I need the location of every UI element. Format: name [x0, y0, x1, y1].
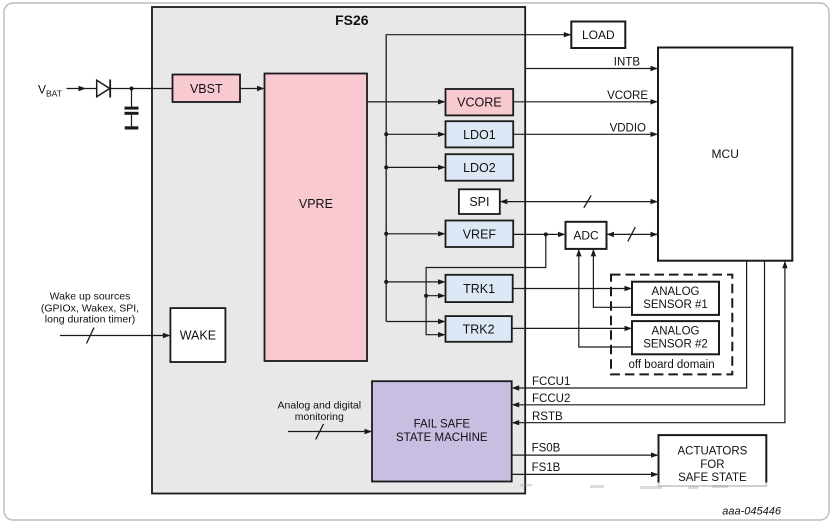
block WAKE — [170, 308, 225, 362]
diode D1 — [97, 80, 111, 98]
wire wake sources to WAKE — [60, 328, 170, 344]
svg-text:off board domain: off board domain — [629, 359, 715, 371]
wire RSTB between FSSM and MCU — [512, 261, 788, 426]
arrow into TRK2 lower input — [438, 332, 446, 337]
svg-text:WAKE: WAKE — [180, 328, 216, 342]
artifact ghost smudges — [520, 484, 728, 489]
artifact white fade over actuators bottom — [560, 483, 775, 492]
svg-text:MCU: MCU — [712, 147, 739, 161]
svg-text:ANALOG: ANALOG — [652, 286, 700, 298]
wire ANALOG SENSOR #2 to ADC — [576, 249, 632, 347]
regulator VBST — [173, 75, 241, 103]
svg-text:SAFE STATE: SAFE STATE — [678, 472, 747, 484]
svg-text:FS1B: FS1B — [532, 462, 561, 474]
wire VPRE output to VCORE — [367, 99, 446, 104]
block ADC — [566, 222, 607, 249]
wire ADC to MCU bidirectional bus — [607, 227, 659, 242]
block ANALOG SENSOR #2 — [632, 321, 719, 354]
wire bus to LDO2 — [386, 165, 445, 170]
wire VREF feedback to TRK lower inputs — [426, 234, 546, 334]
block ACTUATORS FOR SAFE STATE — [659, 435, 767, 486]
FS26 chip outline — [152, 7, 525, 494]
svg-text:FS26: FS26 — [335, 12, 369, 28]
wire SPI to MCU bidirectional bus — [500, 195, 658, 207]
svg-text:FAIL SAFE: FAIL SAFE — [414, 419, 471, 431]
svg-text:TRK2: TRK2 — [463, 323, 495, 337]
svg-text:STATE MACHINE: STATE MACHINE — [396, 432, 488, 444]
svg-text:ANALOG: ANALOG — [652, 325, 700, 337]
capacitor C1 — [125, 89, 139, 127]
svg-text:FOR: FOR — [700, 459, 724, 471]
wire to TRK1 lower input — [426, 293, 445, 298]
svg-text:(GPIOx, Wakex, SPI,: (GPIOx, Wakex, SPI, — [41, 302, 139, 314]
svg-text:VBST: VBST — [190, 82, 223, 96]
svg-text:FS0B: FS0B — [532, 442, 561, 454]
svg-text:SENSOR #1: SENSOR #1 — [643, 299, 708, 311]
wire bus to LDO1 — [386, 132, 445, 137]
svg-text:V: V — [38, 83, 46, 97]
wire FCCU1 from MCU to FSSM — [512, 261, 747, 391]
wire bus bottom to TRK2 upper input — [386, 319, 445, 324]
block SPI — [459, 189, 500, 214]
svg-text:ADC: ADC — [573, 229, 599, 243]
svg-text:VREF: VREF — [463, 227, 497, 241]
wire FS1B to actuators — [512, 462, 659, 477]
regulator VPRE — [265, 74, 368, 362]
wire INTB — [525, 57, 658, 72]
svg-text:LDO1: LDO1 — [463, 128, 496, 142]
svg-text:RSTB: RSTB — [532, 411, 563, 423]
node bus-TRK1 junction — [384, 280, 388, 284]
analog and digital monitoring annotation — [278, 399, 361, 423]
node junction at capacitor tap — [130, 87, 134, 91]
wire monitoring to FSSM — [288, 424, 372, 439]
svg-text:SENSOR #2: SENSOR #2 — [643, 339, 708, 351]
svg-text:Wake up sources: Wake up sources — [50, 291, 131, 303]
svg-text:VCORE: VCORE — [607, 90, 648, 102]
wire VPRE distribution bus — [385, 35, 387, 322]
wire VBAT to diode with arrow — [67, 86, 97, 91]
svg-text:SPI: SPI — [469, 195, 489, 209]
block MCU — [658, 48, 792, 261]
node bus-LDO2 junction — [384, 165, 388, 169]
svg-text:monitoring: monitoring — [295, 411, 344, 423]
block ANALOG SENSOR #1 — [632, 282, 719, 315]
block FAIL SAFE STATE MACHINE — [372, 381, 512, 481]
regulator LDO1 — [446, 121, 514, 147]
wire diode to VBST — [110, 88, 172, 90]
svg-text:LDO2: LDO2 — [463, 161, 496, 175]
wire TRK1 to ANALOG SENSOR #1 — [513, 286, 632, 291]
svg-text:VPRE: VPRE — [299, 197, 333, 211]
wire bus to VREF — [386, 231, 445, 236]
wire FCCU2 from MCU to FSSM — [512, 261, 765, 408]
dashed off board domain boundary — [611, 275, 732, 375]
svg-text:LOAD: LOAD — [582, 28, 615, 42]
svg-text:VDDIO: VDDIO — [610, 122, 646, 134]
wire VREF to ADC — [513, 232, 565, 237]
ground — [125, 126, 139, 129]
svg-text:FCCU2: FCCU2 — [532, 393, 570, 405]
wake up sources annotation — [41, 291, 139, 326]
wire VDDIO from LDO1 to MCU — [513, 122, 658, 137]
svg-text:TRK1: TRK1 — [463, 282, 495, 296]
wire bus to LOAD — [386, 32, 572, 37]
regulator TRK1 — [446, 275, 513, 302]
node VREF-ADC junction — [544, 232, 548, 236]
wire VBST to VPRE — [240, 86, 265, 91]
wire ANALOG SENSOR #1 to ADC — [591, 249, 632, 307]
regulator VCORE — [446, 89, 514, 115]
svg-text:long duration timer): long duration timer) — [45, 314, 135, 326]
node VBAT label — [38, 83, 62, 99]
svg-text:Analog and digital: Analog and digital — [278, 399, 361, 411]
wire FS0B to actuators — [512, 442, 659, 458]
node bus-LDO1 junction — [384, 132, 388, 136]
regulator TRK2 — [446, 316, 512, 342]
node bus-VREF junction — [384, 232, 388, 236]
svg-text:INTB: INTB — [614, 57, 641, 69]
svg-text:VCORE: VCORE — [457, 96, 501, 110]
svg-text:aaa-045446: aaa-045446 — [722, 506, 782, 518]
svg-text:ACTUATORS: ACTUATORS — [677, 446, 747, 458]
svg-text:FCCU1: FCCU1 — [532, 376, 570, 388]
regulator LDO2 — [446, 154, 514, 181]
block LOAD — [571, 22, 625, 49]
wire bus to TRK1 upper input — [386, 279, 445, 284]
wire VCORE to MCU — [513, 90, 658, 105]
node TRK feed junction — [424, 294, 428, 298]
wire TRK2 to ANALOG SENSOR #2 — [512, 326, 632, 331]
svg-text:BAT: BAT — [46, 88, 62, 98]
regulator VREF — [446, 221, 514, 248]
